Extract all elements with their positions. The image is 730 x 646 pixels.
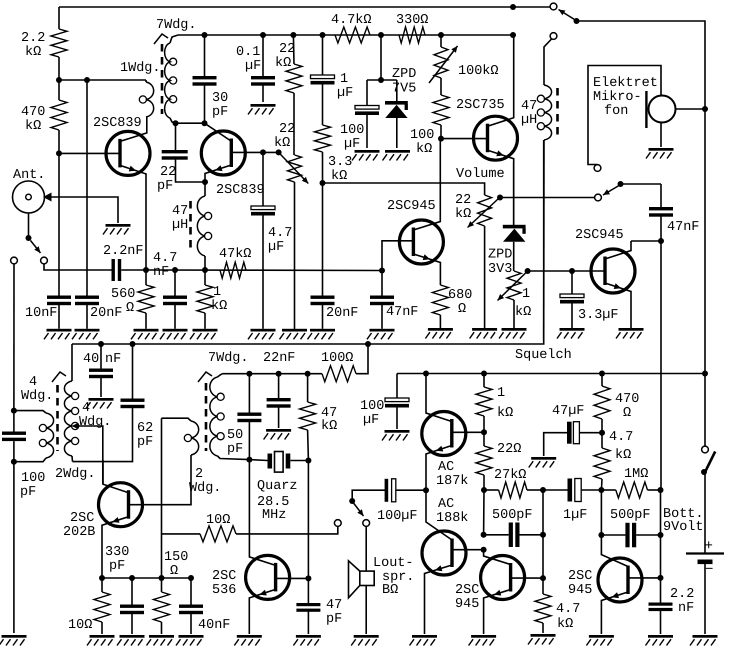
svg-text:150: 150 xyxy=(164,550,188,565)
ground 10nF xyxy=(47,329,72,332)
wire Q2 collector xyxy=(205,123,232,141)
transformer T3 core xyxy=(205,383,208,451)
wire Q2 emitter xyxy=(205,165,231,182)
ground 40nF small xyxy=(89,398,114,401)
svg-text:Elektret: Elektret xyxy=(593,76,658,91)
wire Q10 base xyxy=(512,577,543,579)
svg-text:Ω: Ω xyxy=(126,301,134,316)
wire Q4 base elbow xyxy=(382,241,413,271)
wire base Q1 xyxy=(59,152,119,154)
svg-text:22: 22 xyxy=(279,122,295,137)
node junction 572,271 xyxy=(569,268,575,274)
node junction 602,373.5 xyxy=(599,371,605,377)
transformer T1 secondary 7Wdg xyxy=(169,42,171,44)
transformer T3 secondary 7Wdg xyxy=(218,374,223,377)
svg-text:100µF: 100µF xyxy=(377,509,418,524)
svg-text:4.7: 4.7 xyxy=(268,226,292,241)
transformer T2 marker xyxy=(52,372,66,382)
wire quartz column down xyxy=(248,460,250,552)
wire Q8 base xyxy=(453,431,484,433)
svg-text:30: 30 xyxy=(212,91,228,106)
svg-text:AC: AC xyxy=(438,460,454,475)
svg-text:7Wdg.: 7Wdg. xyxy=(156,18,197,33)
node junction 513,35 xyxy=(510,32,516,38)
capacitor C3 30pF xyxy=(204,35,206,76)
node junction 322,35 xyxy=(320,32,326,38)
svg-text:536: 536 xyxy=(212,583,236,598)
node junction 381,80 xyxy=(378,77,384,83)
ground 100uF rail xyxy=(385,430,410,433)
node junction 601.4,535 xyxy=(598,532,604,538)
switch S2 antenna xyxy=(26,235,32,241)
ground Q11 emitter xyxy=(589,635,614,638)
ground 40nF-2 xyxy=(179,635,204,638)
svg-text:ZPD: ZPD xyxy=(392,67,416,82)
svg-text:µF: µF xyxy=(363,413,379,428)
svg-text:330: 330 xyxy=(105,545,129,560)
wire emitter rail Q6 xyxy=(102,577,191,579)
ground antenna xyxy=(106,224,131,227)
svg-text:pF: pF xyxy=(109,559,125,574)
node junction 102,578 xyxy=(99,575,105,581)
ground microphone xyxy=(649,148,674,151)
switch S1 TX/RX top xyxy=(550,3,557,10)
node junction 101,344 xyxy=(98,341,104,347)
wire Q5 base xyxy=(528,270,604,272)
svg-text:22: 22 xyxy=(455,193,471,208)
wire zener feed xyxy=(380,35,382,80)
svg-text:100: 100 xyxy=(360,399,384,414)
capacitor C7 1uF electrolytic xyxy=(322,35,324,75)
ground 4.7nF xyxy=(163,329,188,332)
microphone terminal circle xyxy=(594,165,601,172)
svg-text:kΩ: kΩ xyxy=(25,45,41,60)
svg-text:470: 470 xyxy=(615,392,639,407)
svg-text:2SC: 2SC xyxy=(70,511,94,526)
svg-text:500pF: 500pF xyxy=(610,508,651,523)
inductor L2 core xyxy=(556,88,559,137)
wire switch feed xyxy=(513,6,550,8)
node junction 205,182 xyxy=(202,179,208,185)
wire bias row y80 xyxy=(59,79,146,81)
ground 47pF xyxy=(296,635,321,638)
svg-text:µF: µF xyxy=(268,240,284,255)
svg-text:2SC945: 2SC945 xyxy=(387,199,436,214)
svg-text:kΩ: kΩ xyxy=(321,419,337,434)
node junction 161.5,578 xyxy=(159,575,165,581)
svg-text:2.2nF: 2.2nF xyxy=(103,244,144,259)
svg-text:pF: pF xyxy=(20,485,36,500)
svg-text:10Ω: 10Ω xyxy=(68,618,92,633)
ground 1k xyxy=(193,329,218,332)
svg-text:2SC: 2SC xyxy=(212,569,236,584)
wire RX detector rail xyxy=(146,269,382,272)
node junction 543,490 xyxy=(540,487,546,493)
svg-text:kΩ: kΩ xyxy=(515,305,531,320)
switch S4 speaker circle xyxy=(334,520,341,527)
ground 0.1uF xyxy=(251,104,276,107)
svg-text:20nF: 20nF xyxy=(90,306,122,321)
svg-text:pF: pF xyxy=(157,179,173,194)
wire supply rail 2 xyxy=(397,373,705,375)
transformer T2 core xyxy=(56,385,59,451)
resistor R3 22k xyxy=(292,35,295,64)
ground volume pot xyxy=(472,328,497,331)
wire 20nF column xyxy=(86,80,88,296)
capacitor C8 20nF xyxy=(311,296,335,299)
transformer T2 secondary 4Wdg antenna xyxy=(14,411,46,413)
svg-text:187k: 187k xyxy=(436,474,468,489)
svg-text:µH: µH xyxy=(172,218,188,233)
wire top supply rail xyxy=(59,6,513,8)
capacitor C9 100uF electrolytic xyxy=(366,80,368,106)
svg-text:ZPD: ZPD xyxy=(488,248,512,263)
wire volume line xyxy=(323,183,485,195)
svg-text:kΩ: kΩ xyxy=(416,142,432,157)
svg-text:1: 1 xyxy=(497,386,505,401)
svg-text:2SC: 2SC xyxy=(455,583,479,598)
wire osc feedback xyxy=(161,418,163,592)
node junction 382,270.5 xyxy=(379,268,385,274)
ground 47nF xyxy=(370,329,395,332)
svg-text:Ω: Ω xyxy=(458,302,466,317)
svg-text:2SC: 2SC xyxy=(568,569,592,584)
wire Q9 collector xyxy=(426,490,452,540)
svg-text:kΩ: kΩ xyxy=(497,406,513,421)
ground antenna column xyxy=(2,635,27,638)
antenna ANT1 xyxy=(13,181,45,213)
wire Q2 base xyxy=(233,151,279,153)
node junction 484,490 xyxy=(481,487,487,493)
node junction 426,490.2 xyxy=(423,487,429,493)
node junction 322.5,183 xyxy=(320,180,326,186)
svg-text:pF: pF xyxy=(326,612,342,627)
ground 2.2nF xyxy=(648,635,673,638)
svg-text:47: 47 xyxy=(326,598,342,613)
wire mic output xyxy=(676,108,706,110)
svg-text:pF: pF xyxy=(137,435,153,450)
svg-text:22nF: 22nF xyxy=(263,351,295,366)
node junction 132.5,344 xyxy=(130,341,136,347)
node junction 527.6,271 xyxy=(525,268,531,274)
svg-text:100: 100 xyxy=(340,123,364,138)
svg-text:27kΩ: 27kΩ xyxy=(494,468,526,483)
node junction 13.9,410.6 xyxy=(11,408,17,414)
svg-text:kΩ: kΩ xyxy=(331,169,347,184)
transformer T2 tap xyxy=(72,423,79,429)
svg-text:2SC839: 2SC839 xyxy=(216,183,265,198)
node junction 278.6,152.4 xyxy=(276,149,282,155)
wire Q10 collector xyxy=(484,550,511,565)
node junction 59,153 xyxy=(56,150,62,156)
svg-text:2.2: 2.2 xyxy=(670,587,694,602)
svg-text:40nF: 40nF xyxy=(198,618,230,633)
svg-text:µF: µF xyxy=(337,86,353,101)
node junction 278.6,373.7 xyxy=(276,371,282,377)
resistor R7 100k xyxy=(440,78,442,95)
node junction 483.6,534.8 xyxy=(481,532,487,538)
ground Q5 emitter xyxy=(619,328,644,331)
svg-text:1: 1 xyxy=(340,72,348,87)
ground 1k pot xyxy=(502,328,527,331)
svg-text:22Ω: 22Ω xyxy=(497,442,521,457)
transformer T1 core xyxy=(161,44,164,114)
svg-text:nF: nF xyxy=(678,601,694,616)
ground 22nF small xyxy=(266,429,291,432)
svg-text:kΩ: kΩ xyxy=(275,56,291,71)
svg-text:47: 47 xyxy=(172,204,188,219)
svg-text:1Wdg.: 1Wdg. xyxy=(120,61,161,76)
svg-text:BΩ: BΩ xyxy=(382,583,398,598)
resistor R1 2.2k xyxy=(58,7,60,29)
svg-text:kΩ: kΩ xyxy=(455,207,471,222)
ground 20nF xyxy=(75,329,100,332)
node junction 660.5,535 xyxy=(658,532,664,538)
svg-text:47µF: 47µF xyxy=(552,404,584,419)
svg-text:kΩ: kΩ xyxy=(615,448,631,463)
node junction 705,373.5 xyxy=(702,371,708,377)
svg-text:100Ω: 100Ω xyxy=(321,351,353,366)
svg-text:500pF: 500pF xyxy=(492,508,533,523)
svg-text:Ω: Ω xyxy=(170,564,178,579)
svg-text:Quarz: Quarz xyxy=(257,479,298,494)
node junction 484,373.5 xyxy=(481,371,487,377)
svg-text:Wdg.: Wdg. xyxy=(79,415,111,430)
node junction 307.6,373.7 xyxy=(305,371,311,377)
svg-text:2: 2 xyxy=(195,467,203,482)
node junction 602,432.7 xyxy=(599,430,605,436)
node junction 661,241 xyxy=(658,238,664,244)
node junction 146,270 xyxy=(143,267,149,273)
svg-text:2.2: 2.2 xyxy=(21,31,45,46)
node junction 601.4,490 xyxy=(598,487,604,493)
svg-text:kΩ: kΩ xyxy=(557,617,573,632)
svg-text:4.7: 4.7 xyxy=(153,251,177,266)
node junction 263,152.4 xyxy=(260,149,266,155)
node junction 705,109 xyxy=(702,106,708,112)
wire Q5 collector to 47nF xyxy=(631,240,661,242)
node junction 381,35 xyxy=(378,32,384,38)
ground 47uF xyxy=(531,457,556,460)
svg-text:202B: 202B xyxy=(63,525,95,540)
ground ZPD7V5 xyxy=(385,150,410,153)
node junction 484,432.3 xyxy=(481,429,487,435)
wire rail 35 left xyxy=(178,34,513,36)
svg-text:Ω: Ω xyxy=(623,406,631,421)
svg-text:Wdg.: Wdg. xyxy=(189,481,221,496)
capacitor C1 10nF xyxy=(47,296,71,299)
svg-text:560: 560 xyxy=(111,287,135,302)
node junction 263,35 xyxy=(260,32,266,38)
svg-text:7V5: 7V5 xyxy=(392,82,416,97)
node junction 13.9,461.7 xyxy=(11,459,17,465)
svg-text:330Ω: 330Ω xyxy=(396,13,428,28)
capacitor C5 0.1uF xyxy=(262,35,264,76)
svg-text:nF: nF xyxy=(153,265,169,280)
svg-text:−: − xyxy=(705,562,713,578)
svg-text:1MΩ: 1MΩ xyxy=(624,467,648,482)
wire winding bottom to 30pF xyxy=(176,122,205,124)
wire Q6 base xyxy=(130,458,192,505)
svg-text:4.7: 4.7 xyxy=(556,602,580,617)
svg-text:9Volt: 9Volt xyxy=(663,520,704,535)
node junction 660.5,490 xyxy=(658,487,664,493)
svg-text:nF: nF xyxy=(105,352,121,367)
wire mic ground lead xyxy=(660,123,662,148)
svg-text:4: 4 xyxy=(29,375,37,390)
node junction 368,344 xyxy=(365,341,371,347)
svg-text:3V3: 3V3 xyxy=(488,262,512,277)
wire Q3 base xyxy=(441,138,487,140)
svg-text:680: 680 xyxy=(448,288,472,303)
wire Q7 base xyxy=(277,577,309,579)
transformer T2 primary right xyxy=(71,344,73,381)
svg-text:47nF: 47nF xyxy=(386,305,418,320)
ground 3.3uF xyxy=(560,328,585,331)
wire antenna column xyxy=(13,264,15,411)
ground speaker xyxy=(354,635,379,638)
switch S1 throw to coil xyxy=(550,33,557,40)
svg-text:47: 47 xyxy=(521,99,537,114)
svg-text:kΩ: kΩ xyxy=(274,136,290,151)
resistor R2 470k xyxy=(51,100,67,130)
ground pot 22k xyxy=(282,329,307,332)
svg-text:4.7kΩ: 4.7kΩ xyxy=(331,13,372,28)
svg-text:µF: µF xyxy=(344,137,360,152)
capacitor C6 4.7uF xyxy=(262,152,264,206)
node junction 204.5,35 xyxy=(202,32,208,38)
svg-text:MHz: MHz xyxy=(262,508,286,523)
svg-text:470: 470 xyxy=(21,105,45,120)
svg-text:kΩ: kΩ xyxy=(25,119,41,134)
node junction 293,35 xyxy=(290,32,296,38)
node junction 543,534.8 xyxy=(540,532,546,538)
svg-text:100kΩ: 100kΩ xyxy=(458,64,499,79)
ground Q7 emitter xyxy=(237,635,262,638)
node junction 441,138.6 xyxy=(438,136,444,142)
transformer T1 primary 1Wdg xyxy=(145,80,147,82)
svg-text:945: 945 xyxy=(568,583,592,598)
svg-text:100: 100 xyxy=(410,128,434,143)
svg-text:945: 945 xyxy=(455,597,479,612)
wire antenna down xyxy=(28,213,30,238)
wire 7Wdg top line xyxy=(223,373,323,375)
svg-text:62: 62 xyxy=(137,421,153,436)
svg-text:4.7: 4.7 xyxy=(609,430,633,445)
svg-text:3.3: 3.3 xyxy=(328,155,352,170)
ground 330pF xyxy=(120,635,145,638)
ground 150 xyxy=(149,635,174,638)
svg-text:1: 1 xyxy=(522,287,530,302)
ground Q9 emitter xyxy=(412,635,437,638)
capacitor C2 20nF xyxy=(75,296,99,299)
svg-text:188k: 188k xyxy=(436,511,468,526)
svg-text:40: 40 xyxy=(83,352,99,367)
svg-text:pF: pF xyxy=(227,442,243,457)
svg-text:fon: fon xyxy=(604,104,628,119)
switch S5 power xyxy=(702,446,709,453)
node junction 543,578.1 xyxy=(540,575,546,581)
ground Q10 emitter xyxy=(471,635,496,638)
wire 100uF feed xyxy=(352,490,385,501)
node junction 249.4,373.7 xyxy=(246,371,252,377)
wire Q11 collector xyxy=(601,535,628,567)
svg-text:50: 50 xyxy=(227,428,243,443)
capacitor C4 22pF xyxy=(175,123,177,150)
svg-text:10nF: 10nF xyxy=(25,306,57,321)
wire to battery line xyxy=(577,21,706,446)
svg-text:22: 22 xyxy=(160,165,176,180)
node junction 660.5,577.9 xyxy=(658,575,664,581)
wire Q9 base xyxy=(453,549,484,551)
node junction 513,7 xyxy=(510,4,516,10)
ground 20nF-2 xyxy=(310,329,335,332)
ground 560 xyxy=(134,329,159,332)
svg-text:µF: µF xyxy=(245,59,261,74)
svg-text:1µF: 1µF xyxy=(563,508,587,523)
node junction 483.6,549.7 xyxy=(481,547,487,553)
microphone box wire xyxy=(588,66,661,165)
node junction 204.5,123 xyxy=(202,120,208,126)
svg-text:Lout-: Lout- xyxy=(373,556,414,571)
node junction 175,270 xyxy=(172,267,178,273)
svg-text:Wdg.: Wdg. xyxy=(21,389,53,404)
svg-text:2SC839: 2SC839 xyxy=(93,116,142,131)
svg-text:0.1: 0.1 xyxy=(236,45,260,60)
svg-text:3.3µF: 3.3µF xyxy=(578,308,619,323)
svg-text:100: 100 xyxy=(21,471,45,486)
node junction 441,35 xyxy=(438,32,444,38)
svg-text:2SC945: 2SC945 xyxy=(575,228,624,243)
svg-text:Mikro-: Mikro- xyxy=(593,90,642,105)
transformer T1 marker xyxy=(154,34,168,44)
svg-text:47nF: 47nF xyxy=(667,220,699,235)
wire squelch rail xyxy=(72,140,544,344)
node junction 87,80 xyxy=(84,77,90,83)
node junction 308.4,578.4 xyxy=(305,575,311,581)
svg-text:pF: pF xyxy=(212,105,228,120)
node junction 191,578 xyxy=(188,575,194,581)
resistor R4 3.3k xyxy=(322,85,324,126)
svg-text:Volume: Volume xyxy=(456,167,505,182)
wire Q11 base xyxy=(629,577,661,579)
node junction 426,373.5 xyxy=(423,371,429,377)
node junction 175.5,123 xyxy=(173,120,179,126)
wire antenna to ground xyxy=(50,197,118,223)
wire squelch pot to switch xyxy=(500,197,595,199)
ground 100uF xyxy=(355,150,380,153)
node junction 500,197.5 xyxy=(497,195,503,201)
wire ant switch to 2.2nF xyxy=(44,264,112,270)
node junction 205,270 xyxy=(202,267,208,273)
transformer T3 marker xyxy=(198,372,212,382)
node junction 249.4,459.6 xyxy=(246,457,252,463)
ground 10ohm xyxy=(90,635,115,638)
svg-text:4: 4 xyxy=(82,401,90,416)
ground battery xyxy=(693,635,718,638)
ground 4.7uF xyxy=(251,329,276,332)
svg-text:22: 22 xyxy=(279,42,295,57)
svg-text:µH: µH xyxy=(521,113,537,128)
inductor L1 core xyxy=(189,201,192,252)
svg-text:20nF: 20nF xyxy=(326,306,358,321)
svg-text:7Wdg.: 7Wdg. xyxy=(208,351,249,366)
svg-text:2SC735: 2SC735 xyxy=(456,98,505,113)
node junction 59,80 xyxy=(56,77,62,83)
svg-text:AC: AC xyxy=(438,497,454,512)
svg-text:Squelch: Squelch xyxy=(515,348,572,363)
switch S4 TX/RX audio xyxy=(349,498,355,504)
